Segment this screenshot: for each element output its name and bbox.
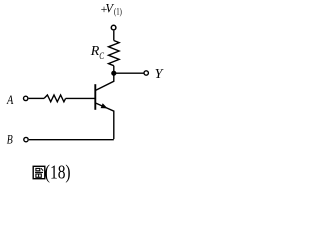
wire resistor to collector node	[113, 66, 115, 76]
junction dot collector node	[111, 71, 116, 76]
caption glyph 圖 drawn	[33, 166, 45, 178]
resistor RC value label	[90, 44, 105, 61]
transistor Q1 collector lead	[96, 73, 114, 90]
resistor RC zigzag	[109, 41, 120, 66]
wire B terminal to emitter	[29, 139, 114, 141]
svg-text:A: A	[6, 92, 13, 107]
transistor Q1 emitter lead	[96, 103, 114, 139]
input terminal B	[24, 137, 28, 141]
transistor Q1 emitter arrow	[101, 103, 108, 108]
wire node to output Y	[114, 72, 144, 74]
wire A terminal to base resistor	[29, 97, 44, 99]
wire base resistor to transistor base	[66, 97, 95, 99]
svg-text:V: V	[105, 2, 114, 16]
svg-text:B: B	[7, 132, 13, 147]
svg-text:R: R	[90, 44, 100, 59]
svg-text:C: C	[99, 51, 105, 61]
node +V(1) supply label	[101, 2, 122, 17]
transistor Q1 base bar	[94, 84, 96, 110]
base resistor zigzag	[44, 95, 66, 102]
power supply terminal	[111, 25, 116, 30]
svg-text:(18): (18)	[45, 162, 71, 184]
input terminal A	[24, 96, 28, 100]
svg-text:Y: Y	[155, 67, 165, 82]
svg-text:(1): (1)	[114, 6, 122, 16]
wire supply to resistor	[113, 31, 115, 41]
output terminal Y	[144, 71, 148, 75]
